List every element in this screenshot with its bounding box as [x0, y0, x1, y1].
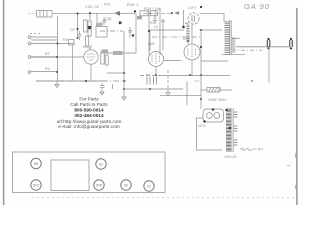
- output transformer OT primary ticks: [225, 22, 230, 54]
- tube socket T5: [121, 180, 131, 190]
- wire drop to V4: [149, 30, 151, 51]
- ground GND1: [55, 81, 59, 88]
- resistor zigzag small: [185, 23, 189, 25]
- wire y89 to output: [124, 88, 183, 90]
- wire rail segment 2: [120, 12, 135, 14]
- svg-text:For Parts: For Parts: [79, 97, 99, 102]
- node rail junction: [89, 12, 91, 14]
- power tube V5: [184, 44, 200, 60]
- parts text block: [57, 97, 122, 131]
- arrow on rail: [114, 11, 120, 16]
- triode V3 plates: [192, 15, 195, 22]
- output transformer OT core: [230, 20, 231, 55]
- wire tube cathode drop: [90, 65, 92, 82]
- mark right small a: [287, 165, 290, 167]
- tube socket T1: [31, 158, 41, 168]
- chassis layout box: [13, 152, 166, 193]
- node col dot 2: [56, 56, 58, 58]
- capacitor C11: [103, 18, 107, 26]
- power transformer PT primary ticks: [226, 109, 231, 151]
- svg-text:6x: 6x: [99, 163, 103, 167]
- svg-text:6J: 6J: [147, 185, 151, 189]
- wire mid vertical x124: [123, 31, 125, 95]
- capacitor C8: [100, 83, 105, 90]
- wire speaker dash-dot: [232, 49, 262, 51]
- node bus dot: [85, 80, 87, 82]
- svg-text:R4: R4: [63, 38, 68, 42]
- wire B+ vertical to rectifier: [200, 30, 202, 109]
- wire R30 leads: [201, 89, 232, 91]
- wire mid vertical x136: [135, 13, 137, 53]
- node x77 bot: [77, 37, 79, 39]
- wire bus solid part: [36, 80, 105, 82]
- wire output top rail right: [200, 29, 223, 31]
- capacitor C20 electrolytic: [147, 77, 150, 85]
- speaker cutout rect: [51, 160, 89, 191]
- capacitor C15: [153, 19, 157, 23]
- svg-text:6V: 6V: [124, 184, 129, 188]
- dash-dot y31: [100, 30, 123, 32]
- ground bus dash-dot: [36, 80, 126, 82]
- triode V3: [188, 13, 199, 24]
- wire B+ rail top: [53, 12, 114, 14]
- mark right small b: [295, 153, 297, 158]
- node x77 mid: [76, 28, 78, 30]
- wire speaker line: [236, 46, 290, 48]
- node stack dot2: [187, 40, 189, 42]
- node rect dot a: [212, 108, 214, 110]
- switch S1 box: [37, 11, 53, 18]
- wire bus y75: [140, 75, 158, 77]
- mark right small c: [295, 185, 297, 189]
- resistor R24 vertical: [84, 20, 88, 32]
- tube socket T6: [144, 181, 154, 191]
- wire into tube: [89, 46, 91, 50]
- wire left column vertical: [57, 16, 59, 81]
- tube socket T2: [31, 180, 41, 190]
- wire input row 2: [31, 40, 74, 44]
- wire y61 link: [201, 60, 228, 62]
- resistor R11 vertical: [105, 55, 108, 65]
- svg-text:6V6: 6V6: [148, 42, 154, 46]
- node rect dot b: [203, 120, 205, 122]
- resistor R26 horizontal: [96, 23, 103, 27]
- svg-text:6N: 6N: [34, 162, 39, 166]
- page left edge: [3, 0, 5, 205]
- triode V1 grid: [87, 54, 95, 60]
- node x135 dot: [134, 10, 136, 12]
- svg-text:Call Parts Is Parts: Call Parts Is Parts: [70, 102, 108, 107]
- capacitor C30: [128, 27, 132, 38]
- resistor R10 vertical: [101, 52, 104, 64]
- triode V1: [84, 50, 98, 64]
- wire y95 bus: [160, 95, 201, 97]
- svg-text:5Y3: 5Y3: [33, 184, 39, 188]
- node x149 dot: [148, 30, 150, 32]
- node rail junction 2: [171, 12, 173, 14]
- tube socket T4: [94, 180, 104, 190]
- resistor R29 inline box: [140, 11, 148, 16]
- node x124 dot b: [123, 88, 125, 90]
- node PT dot: [229, 127, 231, 129]
- wire rail to OT: [200, 12, 225, 14]
- wire input row 3 thin: [57, 56, 84, 58]
- perforation dots bottom: [32, 197, 300, 199]
- wire speaker drop: [268, 49, 270, 84]
- dash-dot y37: [152, 36, 200, 38]
- svg-text:C25 .02: C25 .02: [85, 4, 100, 9]
- capacitor C9 small mark: [112, 84, 114, 89]
- wire dashed vertical x168: [167, 70, 169, 88]
- svg-text:6SQ7: 6SQ7: [83, 45, 92, 49]
- output transformer OT secondary ticks: [232, 38, 235, 52]
- wire OT bottom: [222, 54, 245, 56]
- wire stack vertical: [188, 24, 192, 44]
- svg-text:GA 90: GA 90: [244, 2, 270, 11]
- page right edge: [296, 8, 297, 205]
- capacitor C3: [78, 31, 81, 40]
- svg-text:302-484-0014: 302-484-0014: [74, 113, 104, 118]
- svg-text:+ +: + +: [146, 73, 151, 77]
- speaker jack J5: [267, 38, 270, 50]
- power tube V5 grid: [188, 46, 196, 58]
- node bus dot 2: [123, 80, 125, 82]
- svg-text:R9: R9: [45, 67, 50, 71]
- rectifier circle b: [214, 113, 220, 119]
- wire input row 3 bold: [30, 56, 57, 58]
- svg-text:C6: C6: [70, 28, 74, 32]
- wire y60 link: [164, 60, 181, 62]
- wire V4 cathode: [155, 67, 157, 76]
- resistor R14 horizontal: [113, 51, 123, 55]
- wire OT secondary out: [232, 38, 240, 40]
- ground GND2: [100, 90, 104, 95]
- node PT dot2: [225, 109, 227, 111]
- power transformer PT core: [232, 108, 233, 152]
- wire input row 1: [31, 36, 58, 38]
- wire mid vertical x163: [162, 25, 164, 50]
- wire vertical x77: [77, 14, 79, 39]
- wire x97 drop: [96, 13, 98, 22]
- switch S2 box: [69, 40, 75, 46]
- switch S1 hatch: [40, 11, 47, 18]
- wire mid vertical x160: [159, 8, 161, 55]
- wire output top rail left: [150, 29, 184, 31]
- svg-text:url:http://www.guitar-parts.co: url:http://www.guitar-parts.com: [57, 119, 122, 125]
- svg-text:e-mail: info@guitarparts.com: e-mail: info@guitarparts.com: [58, 124, 119, 130]
- tube socket T3: [96, 159, 106, 169]
- wire input row 1 dashed: [30, 33, 42, 35]
- svg-text:R28 .1: R28 .1: [127, 2, 140, 7]
- wire y73 link: [107, 72, 124, 74]
- wire mid vertical x149: [148, 10, 150, 55]
- resistor R13 small: [137, 16, 142, 19]
- svg-text:R7: R7: [45, 52, 50, 56]
- node y75 dot2: [189, 74, 191, 76]
- power tube V4 grid: [152, 53, 160, 64]
- node blob x120: [119, 22, 122, 25]
- capacitor C14: [161, 20, 165, 25]
- node y75 dot1: [155, 74, 157, 76]
- node label dot: [200, 6, 202, 8]
- AC cord loop: [197, 118, 223, 150]
- ground GND4: [166, 89, 170, 96]
- svg-text:115V 60: 115V 60: [224, 155, 236, 159]
- node x124 dot: [123, 72, 125, 74]
- wire drop from rail: [89, 13, 91, 20]
- capacitor C21 electrolytic: [154, 77, 157, 85]
- resistor R30 inline box: [151, 11, 158, 16]
- power tube V4: [149, 52, 164, 67]
- wire grid feed x183: [183, 10, 185, 27]
- speaker jack J6: [290, 38, 293, 50]
- svg-text:R29 | 1W: R29 | 1W: [144, 6, 161, 11]
- svg-text:6V6: 6V6: [183, 37, 189, 41]
- node col dot 3: [56, 71, 58, 73]
- coupling cap C7 box: [102, 50, 109, 54]
- svg-text:800-590-0014: 800-590-0014: [74, 108, 104, 113]
- pot P1 box: [96, 27, 107, 38]
- node dark junction: [88, 26, 91, 29]
- handwriting GA-90: [240, 148, 263, 151]
- node y89 dot: [149, 88, 151, 90]
- svg-text:20MF 450V: 20MF 450V: [208, 98, 227, 102]
- input jack J3: [28, 56, 31, 59]
- node x133 dot: [132, 34, 134, 36]
- rectifier socket X1: [203, 109, 224, 122]
- wire y53 link: [107, 52, 136, 54]
- power transformer PT secondary ticks: [234, 112, 238, 145]
- arrow at rail mid: [174, 11, 179, 15]
- node y75 dot3: [200, 74, 202, 76]
- wire rail dashes: [143, 12, 172, 14]
- wire vertical x187 low: [186, 81, 188, 105]
- wire input row 4: [31, 71, 58, 73]
- wire stub left of S1: [28, 12, 37, 14]
- node x183 dark: [182, 26, 185, 29]
- node x201 top: [200, 29, 202, 31]
- node col dot 1: [57, 43, 59, 45]
- wire V5 cathode: [191, 60, 193, 75]
- input jack J2: [28, 42, 31, 45]
- resistor R30 hatched: [207, 88, 220, 93]
- node drop dot: [251, 80, 253, 82]
- resistor R27 vertical: [86, 36, 89, 46]
- node B+ dot top: [200, 46, 202, 48]
- wire OT primary top lead: [223, 13, 225, 22]
- wire vertical x72: [72, 45, 74, 80]
- svg-text:6V6: 6V6: [96, 184, 102, 188]
- node B+ dot low: [200, 98, 202, 100]
- svg-text:.02: .02: [153, 25, 158, 29]
- phase stack ticks: [186, 26, 190, 41]
- svg-text:L4F7: L4F7: [188, 6, 196, 10]
- mark near x187: [195, 80, 199, 82]
- resistor R25 vertical: [88, 21, 91, 36]
- svg-text:117V: 117V: [198, 124, 206, 128]
- ground GND3: [122, 95, 126, 100]
- wire x155 stub: [154, 10, 156, 18]
- input jack J1: [28, 36, 31, 39]
- input jack J4: [28, 71, 31, 74]
- node x77 top: [76, 12, 78, 14]
- rectifier circle a: [207, 113, 213, 119]
- svg-text:R26: R26: [104, 3, 110, 7]
